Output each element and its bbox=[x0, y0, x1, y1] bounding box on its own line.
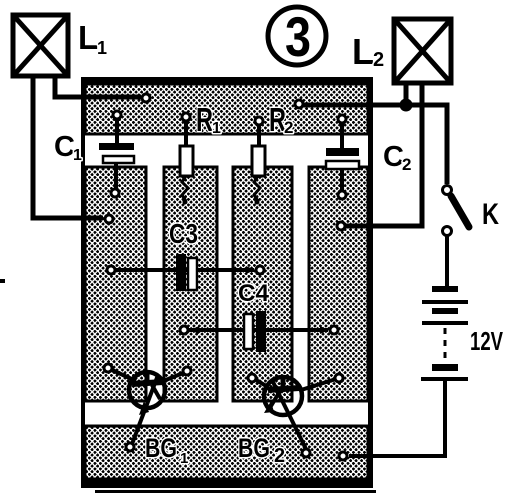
lamp L1 bbox=[13, 15, 68, 76]
svg-text:1: 1 bbox=[97, 38, 107, 58]
copper rail bottom (stippled) bbox=[85, 426, 368, 479]
solder pad, battery wire on top rail bbox=[295, 100, 303, 108]
solder pad, C3 left wire on trace A bbox=[107, 266, 115, 274]
arrowhead at C4 left pad bbox=[190, 326, 199, 334]
solder pad, BG1 collector on trace A bbox=[104, 364, 112, 372]
capacitor C1 bbox=[99, 119, 134, 189]
wire lamp L2 left leg to junction bbox=[404, 83, 409, 101]
solder pad, L1 wire on top rail bbox=[142, 94, 150, 102]
capacitor C4 plates bbox=[244, 311, 266, 352]
wire lamp L1 right leg to top rail bbox=[55, 77, 141, 97]
solder pad, C4 left wire on trace B bbox=[180, 326, 188, 334]
wire switch to battery positive bbox=[445, 236, 449, 286]
svg-text:2: 2 bbox=[373, 49, 384, 71]
solder pad, BG2 emitter on bottom rail bbox=[302, 449, 310, 457]
solder pad, BG2 collector on trace D bbox=[335, 374, 343, 382]
svg-text:C: C bbox=[54, 131, 75, 163]
svg-text:1: 1 bbox=[73, 147, 82, 164]
svg-text:C3: C3 bbox=[169, 218, 198, 249]
solder pad, R2 top lead on top rail bbox=[255, 117, 263, 125]
solder pad, C1 bottom lead on trace A bbox=[111, 189, 119, 197]
solder pad, L2 wire on trace D bbox=[337, 222, 345, 230]
solder pad, BG1 base on trace B bbox=[183, 367, 191, 375]
wire battery negative to bottom rail pad bbox=[349, 381, 445, 456]
svg-text:BG: BG bbox=[238, 433, 270, 463]
svg-text:BG: BG bbox=[145, 433, 177, 463]
battery 12V bbox=[421, 286, 468, 381]
copper column C bbox=[233, 167, 292, 401]
solder pad, L1 wire on trace A bbox=[105, 215, 113, 223]
wire capacitor C4 leads (trace B to trace D) bbox=[188, 328, 328, 332]
svg-text:C4: C4 bbox=[238, 280, 270, 307]
stray mark left edge bbox=[0, 279, 5, 283]
solder pad, C2 bottom lead on trace D bbox=[338, 191, 346, 199]
arrowhead at C4 right pad bbox=[320, 326, 329, 334]
svg-text:2: 2 bbox=[402, 155, 411, 174]
solder pad, C2 top lead on top rail bbox=[338, 115, 346, 123]
svg-text:1: 1 bbox=[180, 450, 188, 467]
figure number 3 in circle bbox=[268, 5, 326, 68]
capacitor C3 plates bbox=[176, 254, 197, 291]
svg-text:3: 3 bbox=[285, 5, 311, 68]
junction node lamp L2 / switch wire bbox=[400, 99, 413, 112]
svg-text:R: R bbox=[196, 101, 213, 138]
board shadow line bbox=[95, 490, 376, 493]
transistor BG2 bbox=[256, 377, 336, 449]
svg-text:1: 1 bbox=[212, 120, 221, 137]
copper rail top (stippled) bbox=[85, 84, 368, 134]
solder pad, R1 top lead on top rail bbox=[182, 113, 190, 121]
copper column A bbox=[85, 167, 146, 401]
svg-text:2: 2 bbox=[284, 118, 293, 137]
solder pad, C3 right wire on trace C bbox=[256, 266, 264, 274]
wire capacitor C3 leads (trace A to trace C) bbox=[114, 268, 254, 272]
wire lamp L1 left leg to trace A bbox=[33, 77, 103, 218]
copper column D bbox=[309, 167, 368, 401]
solder pad, BG2 base on trace C bbox=[248, 374, 256, 382]
transistor BG1 bbox=[112, 370, 183, 444]
switch K bbox=[443, 186, 470, 236]
svg-text:C: C bbox=[383, 141, 404, 173]
svg-text:2: 2 bbox=[274, 445, 285, 467]
circuit board outer border bbox=[81, 77, 373, 488]
solder pad, BG1 emitter on bottom rail bbox=[126, 443, 134, 451]
svg-text:12V: 12V bbox=[470, 326, 503, 356]
wire lamp L2 right leg to board bbox=[346, 84, 422, 226]
svg-text:L: L bbox=[352, 31, 374, 72]
arrowhead at C3 right pad bbox=[246, 266, 255, 274]
svg-text:L: L bbox=[78, 19, 98, 56]
wire top rail pad to lamp L2 and switch K bbox=[303, 105, 447, 184]
solder pad, C1 top lead on top rail bbox=[113, 111, 121, 119]
solder pad, C4 right wire on trace D bbox=[330, 326, 338, 334]
solder pad, battery return wire on bottom rail bbox=[339, 452, 347, 460]
lamp L2 bbox=[394, 19, 451, 83]
capacitor C2 bbox=[326, 123, 359, 191]
copper column B bbox=[164, 167, 217, 401]
resistor R2 bbox=[252, 125, 265, 205]
svg-text:K: K bbox=[482, 198, 499, 231]
resistor R1 bbox=[180, 121, 193, 205]
